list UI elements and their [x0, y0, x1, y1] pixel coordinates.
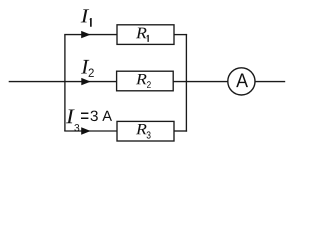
resistor R1 letter R [136, 28, 147, 39]
label equals sign [81, 113, 88, 120]
resistor R1 box [117, 25, 174, 45]
label I2 letter I [81, 60, 89, 74]
wire bottom branch left [64, 130, 118, 132]
label value 3 [91, 111, 98, 122]
wire right bus vertical [185, 34, 187, 132]
resistor R3 subscript 3 [147, 131, 151, 138]
wire top branch right [174, 34, 188, 36]
resistor R2 subscript 2 [147, 81, 151, 88]
label I3 subscript 3 [74, 124, 79, 131]
label I1 subscript 1 [90, 18, 92, 27]
resistor R3 letter R [136, 124, 147, 134]
arrow I2 current direction [81, 78, 90, 85]
label I2 subscript 2 [89, 69, 94, 77]
label I1 letter I [81, 9, 90, 22]
wire main horizontal (middle branch) [9, 81, 286, 83]
wire bottom branch right [174, 130, 188, 132]
resistor R2 box [117, 71, 174, 91]
label I3 letter I [66, 110, 75, 124]
resistor R2 letter R [136, 74, 147, 84]
wire left bus vertical [64, 35, 66, 131]
arrow I3 current direction [81, 127, 90, 134]
ammeter circle [228, 68, 255, 95]
wire top branch left [64, 34, 118, 36]
resistor R3 box [117, 121, 174, 141]
ammeter letter A [236, 74, 248, 88]
arrow I1 current direction [81, 31, 90, 38]
resistor R1 subscript 1 [147, 35, 149, 42]
label unit A [102, 111, 112, 121]
